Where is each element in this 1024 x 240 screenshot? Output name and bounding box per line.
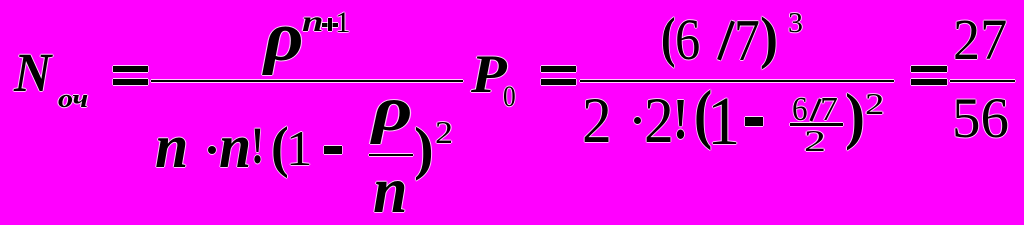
- equals 1 top bar: [113, 66, 148, 72]
- factorial 1: [251, 121, 264, 173]
- nested fraction bar 1: [369, 154, 413, 156]
- equals 2 top bar: [541, 66, 576, 72]
- digit 2 first: [582, 89, 612, 154]
- minus sign 2: [745, 117, 763, 126]
- exponent 2 eq1: [435, 116, 453, 148]
- subscript 0: [503, 81, 516, 111]
- factorial 2: [673, 90, 688, 149]
- rho nested: [372, 77, 413, 142]
- digit 1 eq2: [707, 86, 740, 155]
- superscript 1: [335, 9, 351, 39]
- exponent 2 eq2: [865, 88, 884, 119]
- exponent 3: [788, 9, 803, 38]
- superscript plus horizontal: [322, 23, 338, 27]
- small 2: [804, 125, 826, 156]
- right paren 1: [414, 119, 434, 178]
- n first: [155, 116, 188, 178]
- right paren den2: [845, 84, 865, 148]
- digit 6 num2: [675, 11, 700, 69]
- fraction bar 3: [950, 80, 1015, 83]
- left paren den2: [694, 82, 712, 148]
- equals 3 bottom bar: [911, 79, 947, 85]
- numerator 27: [953, 11, 1007, 70]
- fraction bar 1: [151, 80, 463, 82]
- equals 3 top bar: [911, 66, 947, 72]
- equals 2 bottom bar: [541, 79, 576, 85]
- rho numerator: [264, 2, 304, 73]
- digit 1 eq1: [286, 123, 312, 173]
- multiplication dot 2: [634, 117, 641, 124]
- subscript och: [58, 86, 88, 112]
- left paren num2: [661, 10, 676, 66]
- nested fraction bar 2: [790, 123, 843, 126]
- superscript n: [302, 7, 323, 37]
- n second: [219, 116, 251, 178]
- small 6: [792, 93, 808, 127]
- small 7: [820, 93, 838, 127]
- symbol P: [471, 47, 507, 102]
- digit 7 num2: [734, 11, 760, 70]
- right paren num2: [760, 9, 778, 67]
- minus sign 1: [324, 146, 342, 154]
- symbol N: [14, 45, 51, 100]
- equals 1 bottom bar: [113, 79, 148, 85]
- digit 2 second: [644, 89, 674, 154]
- n nested: [373, 158, 407, 224]
- superscript plus vertical: [328, 18, 332, 32]
- small slash: [809, 98, 821, 121]
- fraction bar 2: [580, 80, 894, 82]
- denominator 56: [952, 90, 1009, 147]
- multiplication dot 1: [208, 146, 216, 154]
- left paren 1: [271, 119, 289, 176]
- slash num2: [717, 20, 735, 60]
